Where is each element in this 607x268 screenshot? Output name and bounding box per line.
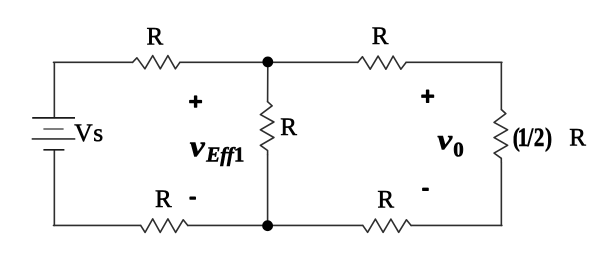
svg-text:(1/2): (1/2) [513,124,552,152]
resistor R1 top-left zigzag [133,56,180,69]
node B bottom junction dot [262,220,273,231]
wire right rail lower [500,163,502,226]
minus sign of v0 [422,188,429,191]
minus sign of vEff1 [189,197,196,200]
wire top rail right segment [268,61,358,63]
resistor R2 top-right zigzag [358,56,406,69]
svg-text:R: R [280,114,297,141]
battery plate 2 short [43,128,63,130]
wire bottom rail left of node [188,224,268,226]
battery plate 3 long [32,138,76,140]
svg-text:Eff1: Eff1 [205,142,244,166]
wire middle rail lower stub [267,155,269,226]
battery Vs plates [32,118,76,150]
svg-text:R: R [147,24,164,51]
svg-text:R: R [569,124,586,151]
wire top rail to right corner [406,61,502,63]
svg-text:v: v [437,124,453,156]
svg-text:v: v [190,130,206,163]
wire right rail upper [500,62,502,109]
battery plate 1 long [32,117,75,119]
resistor Rmid vertical zigzag [260,102,274,155]
svg-text:R: R [372,23,389,50]
wire middle rail upper stub [267,62,269,101]
wire top rail left segment [54,61,133,63]
resistor R4 bottom-right zigzag [363,219,411,232]
wire top rail middle segment [180,61,268,63]
resistor R5 right vertical zigzag [494,110,508,163]
wire left rail upper (top to battery) [53,62,55,117]
wire left rail lower (battery to bottom) [53,150,55,226]
wire bottom rail right corner segment [411,224,502,226]
node A top junction dot [262,57,273,68]
svg-text:R: R [155,186,172,213]
svg-text:0: 0 [453,138,464,162]
battery plate 4 short [43,149,64,151]
svg-text:R: R [377,186,394,213]
svg-text:Vs: Vs [74,118,103,147]
wire bottom rail middle segment [268,224,363,226]
resistor R3 bottom-left zigzag [141,219,188,233]
plus sign of v0 [421,90,434,104]
plus sign of vEff1 [189,95,202,107]
wire bottom rail left segment [54,224,141,226]
